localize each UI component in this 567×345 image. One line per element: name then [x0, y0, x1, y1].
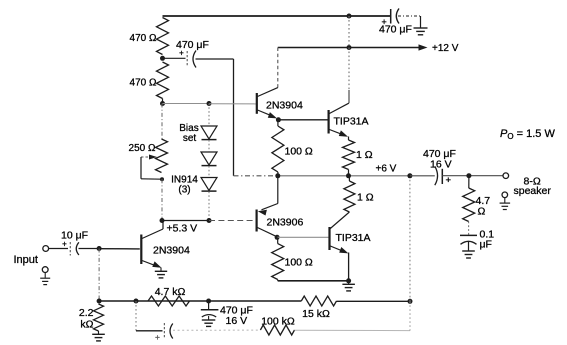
wire : bias line to diode top	[163, 103, 210, 105]
node : +5.3V left junction	[160, 218, 165, 223]
node : Q2 emitter junction	[276, 117, 281, 122]
wire : R9 to output riser	[337, 300, 411, 302]
svg-text:4.7 kΩ: 4.7 kΩ	[155, 286, 186, 298]
node : Q1 base junction	[97, 246, 102, 251]
resistor R5b 1ohm lower	[344, 176, 355, 212]
node : output/feedback junction	[407, 173, 412, 178]
wire : Q5 emitter down to ground rail	[348, 253, 350, 281]
transistor Q1 2N3904 input stage	[141, 221, 163, 268]
wire : feedback corner vertical (faint)	[409, 301, 411, 330]
wire : feedback riser to output node	[409, 176, 411, 301]
ground : below C9	[462, 250, 475, 252]
wire : +5.3V line	[162, 220, 209, 222]
wire : +5.3V dashed link to Q3 base	[209, 220, 254, 222]
resistor R8 2.2k	[94, 304, 104, 331]
svg-text:1 Ω: 1 Ω	[356, 149, 373, 161]
svg-text:100 Ω: 100 Ω	[285, 257, 313, 269]
wire : +12V rail with arrow	[278, 44, 428, 50]
wire : to C7 plate	[136, 330, 163, 332]
svg-text:TIP31A: TIP31A	[334, 116, 369, 128]
label : Po = 1.5 W	[500, 128, 555, 141]
svg-text:16 V: 16 V	[430, 158, 452, 170]
wire : vertical from top rail to +12V rail	[348, 16, 350, 48]
capacitor C5 470uF supply filter (top right)	[379, 9, 421, 36]
transistor Q5 TIP31A lower	[330, 212, 350, 253]
wire : output rail to C8	[410, 175, 435, 177]
wire : C7 to R10 (faint)	[173, 329, 260, 331]
transistor Q3 2N3906	[257, 204, 278, 237]
wire : Q2 emitter to Q4 base	[278, 119, 327, 121]
node : ground rail junction	[346, 278, 351, 283]
node : 2.2k junction	[97, 299, 102, 304]
svg-text:+: +	[446, 175, 452, 186]
svg-text:2N3906: 2N3906	[267, 217, 304, 229]
wire : base junction to Q1	[99, 248, 140, 250]
label : C9 0.1uF	[480, 229, 495, 251]
capacitor C6 470uF 16V bypass	[201, 301, 219, 317]
terminal : speaker -	[502, 192, 508, 198]
svg-text:(3): (3)	[178, 185, 190, 196]
wire : bottom feedback rail	[99, 300, 301, 302]
svg-text:470 Ω: 470 Ω	[130, 78, 157, 89]
node : feedback cap junction	[134, 299, 139, 304]
wire : vertical from +12V rail down to Q4 collector	[348, 48, 350, 91]
svg-text:+12 V: +12 V	[432, 43, 459, 54]
svg-text:+5.3 V: +5.3 V	[167, 223, 198, 235]
node : Q3 collector junction	[275, 235, 280, 240]
capacitor C7 feedback electrolytic	[155, 323, 173, 342]
wire : input to C1	[49, 248, 68, 250]
wire : stem R2 junction down to R3	[161, 104, 163, 140]
node : 4.7ohm junction	[466, 173, 471, 178]
wire : C8 to speaker terminal	[442, 175, 503, 177]
svg-text:TIP31A: TIP31A	[336, 232, 371, 244]
resistor R11 4.7ohm zobel	[463, 176, 475, 236]
resistor R10 100k	[260, 325, 294, 335]
wire : feedback node down to C7	[135, 301, 137, 331]
node : bootstrap junction between R1/R2	[160, 56, 165, 61]
transistor Q2 2N3904 driver	[257, 88, 278, 119]
ground : below C6	[202, 316, 216, 326]
ground : top right supply filter	[414, 16, 428, 35]
wire : Q3 collector to Q5 base	[277, 236, 328, 238]
wire : bootstrap cap to vertical drop	[196, 58, 234, 60]
ground : Q1 emitter	[155, 268, 167, 278]
label : Bias set	[179, 123, 198, 144]
terminal : input jack	[43, 246, 49, 252]
wire : C1 to Q1 base	[79, 248, 100, 250]
resistor R3 250ohm bias trimpot	[156, 139, 168, 173]
diode D2 IN914	[201, 140, 217, 166]
resistor R9 15k feedback	[301, 296, 336, 306]
capacitor C1 10uF input coupling	[61, 230, 88, 256]
node : top rail junction	[347, 14, 352, 19]
capacitor C9 0.1uF zobel	[460, 235, 477, 250]
diode D3 IN914	[201, 166, 217, 221]
wire : diode top to Q2 base	[209, 103, 256, 105]
svg-text:1 Ω: 1 Ω	[357, 192, 374, 204]
svg-text:470 Ω: 470 Ω	[130, 33, 157, 44]
svg-text:10 μF: 10 μF	[61, 230, 88, 242]
svg-text:2N3904: 2N3904	[266, 100, 303, 112]
svg-text:470 μF: 470 μF	[176, 39, 209, 51]
wiper arrow of R3	[141, 155, 157, 160]
node : bypass cap junction	[206, 299, 211, 304]
ground : speaker return	[500, 198, 511, 210]
ground : input jack	[40, 273, 50, 285]
terminal : input ground jack	[42, 267, 48, 273]
wire : R3 bottom down to +5.3V line	[161, 179, 163, 220]
wire : Q1 base junction down to feedback rail	[98, 249, 100, 302]
resistor R1 470ohm (upper)	[157, 18, 169, 55]
svg-text:2N3904: 2N3904	[153, 245, 190, 257]
svg-text:PO = 1.5 W: PO = 1.5 W	[500, 128, 555, 141]
svg-text:speaker: speaker	[514, 185, 552, 197]
wire : +6V output rail	[278, 175, 410, 177]
resistor R2 470ohm (lower)	[157, 62, 169, 99]
label : C6 470uF 16V	[220, 305, 253, 328]
svg-text:470 μF: 470 μF	[379, 24, 412, 36]
node : bias line left junction	[160, 101, 165, 106]
wire : bootstrap dashed link to +6V node	[234, 175, 278, 177]
terminal : speaker +	[503, 173, 509, 179]
label : 8-ohm speaker	[514, 176, 552, 198]
node : diode chain top junction	[207, 101, 212, 106]
node : R5 bottom junction	[346, 173, 351, 178]
wire : R10 to feedback corner (faint)	[295, 329, 411, 331]
svg-text:100 Ω: 100 Ω	[285, 146, 313, 158]
svg-text:2.2: 2.2	[79, 307, 94, 319]
svg-text:250 Ω: 250 Ω	[129, 143, 156, 154]
svg-text:+6 V: +6 V	[376, 164, 397, 175]
svg-text:+: +	[155, 332, 160, 342]
label : R11 4.7 ohm	[476, 195, 491, 218]
node : R4 bottom junction	[275, 173, 280, 178]
svg-text:kΩ: kΩ	[80, 319, 93, 331]
svg-text:Ω: Ω	[478, 206, 486, 218]
wire : +6V node down to Q3 emitter	[277, 176, 279, 204]
wire : lower ground rail	[278, 280, 349, 282]
capacitor C2 470uF bootstrap	[163, 39, 209, 68]
wire : R2 bottom to bias line	[162, 99, 164, 104]
ground : output stage	[342, 281, 355, 291]
diode D1 IN914	[201, 104, 217, 140]
svg-text:100 kΩ: 100 kΩ	[261, 316, 295, 328]
svg-text:15 kΩ: 15 kΩ	[302, 308, 330, 320]
resistor R6 100ohm lower	[272, 237, 284, 280]
resistor R4 100ohm upper	[272, 120, 284, 176]
node : R3 bottom junction	[160, 177, 164, 181]
svg-text:16 V: 16 V	[226, 315, 248, 327]
svg-text:set: set	[183, 133, 197, 144]
resistor R5 1ohm upper	[343, 137, 355, 176]
node : feedback right junction	[408, 299, 413, 304]
wire : Q2 collector riser to +12V rail	[277, 48, 279, 88]
svg-text:μF: μF	[480, 239, 492, 251]
transistor Q4 TIP31A upper	[329, 103, 349, 137]
wire : top supply rail	[163, 15, 391, 17]
svg-text:Input: Input	[14, 254, 38, 266]
node : +12V rail junction	[347, 45, 352, 50]
ground : below R8	[92, 331, 105, 341]
label : IN914 (3)	[171, 175, 198, 196]
label : R8 2.2 kohm	[79, 307, 94, 331]
wire : wiper return to R3 bottom	[141, 157, 162, 179]
resistor R7 4.7k feedback	[148, 296, 190, 306]
capacitor C8 470uF output coupling	[423, 148, 456, 186]
wire : bootstrap vertical down to output node	[233, 59, 235, 176]
node : diode chain bottom junction	[207, 218, 212, 223]
